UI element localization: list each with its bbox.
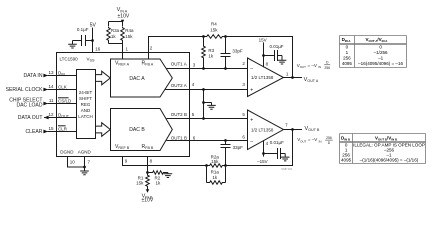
svg-text:–: – [250, 139, 253, 145]
DAC B block [111, 109, 173, 151]
svg-text:10: 10 [70, 160, 76, 165]
svg-text:R4: R4 [211, 22, 217, 27]
svg-text:15k: 15k [211, 159, 219, 164]
svg-text:= –V: = –V [308, 137, 317, 142]
wire output A node [284, 77, 303, 79]
capacitor 0.1uF bypass [73, 35, 93, 46]
svg-text:1k: 1k [156, 181, 162, 186]
svg-text:DAC LOAD: DAC LOAD [16, 103, 42, 109]
wire SERIAL CLOCK pin 14 [43, 88, 48, 92]
svg-text:15k: 15k [125, 34, 133, 39]
wire DATA OUT pin 12 [44, 116, 49, 120]
svg-text:IN: IN [318, 65, 321, 69]
svg-text:–1: –1 [378, 56, 384, 61]
wire output B node [284, 129, 303, 131]
svg-text:15k: 15k [210, 27, 218, 32]
wire CLEAR pin 15 [43, 130, 48, 134]
ground AGND [84, 167, 86, 171]
table A DIN A transfer [340, 36, 407, 68]
ground R2 [164, 174, 173, 178]
resistor R1 15k [147, 173, 149, 175]
svg-text:SERIAL CLOCK: SERIAL CLOCK [6, 87, 43, 93]
svg-text:0.01µF: 0.01µF [270, 140, 284, 145]
svg-text:1/2 LT1358: 1/2 LT1358 [251, 75, 274, 80]
chip LTC1590 outline [57, 53, 190, 157]
svg-text:DATA OUT: DATA OUT [18, 115, 43, 121]
wire feedback B loop [226, 130, 293, 166]
svg-text:–1/256: –1/256 [374, 50, 388, 55]
svg-text:33pF: 33pF [233, 145, 244, 150]
svg-text:–15V: –15V [257, 159, 268, 164]
svg-text:33pF: 33pF [232, 48, 243, 53]
svg-text:1k: 1k [212, 175, 218, 180]
wire pin 9 VREF B to feedback line [123, 157, 207, 166]
wire divider to pin 1 VREF A [109, 44, 123, 60]
resistor R1a 1k parallel [207, 166, 226, 183]
table B DIN B transfer [340, 134, 426, 164]
wire pin 8 RFB B to input node [147, 157, 149, 173]
svg-text:15k: 15k [136, 181, 144, 186]
svg-text:4095: 4095 [341, 158, 352, 163]
svg-text:= –V: = –V [308, 63, 317, 68]
svg-text:R3: R3 [208, 48, 214, 53]
svg-text:0.01µF: 0.01µF [269, 44, 283, 49]
svg-text:DATA IN: DATA IN [23, 73, 42, 79]
wire DATA IN pin 13 [43, 74, 48, 78]
svg-text:+: + [250, 87, 253, 93]
svg-text:DGND: DGND [60, 150, 74, 155]
svg-text:OUT1 B: OUT1 B [171, 135, 187, 140]
resistor R3 1k [203, 37, 205, 46]
svg-text:±10V: ±10V [141, 198, 153, 204]
svg-text:LTC1590: LTC1590 [60, 56, 79, 61]
capacitor 33pF B [221, 141, 231, 166]
wire feedback A to output node [226, 37, 293, 78]
svg-text:REG: REG [81, 102, 91, 107]
svg-text:0.1µF: 0.1µF [77, 27, 89, 32]
svg-text:AND: AND [81, 108, 91, 113]
svg-text:13: 13 [48, 70, 54, 75]
svg-text:12: 12 [48, 112, 54, 117]
resistor R4 15k [206, 35, 224, 39]
wire OUT2 A pin 4 to noninverting input [165, 89, 248, 91]
svg-text:OUT2 B: OUT2 B [171, 112, 187, 117]
svg-text:15V: 15V [259, 38, 267, 43]
svg-text:1k: 1k [111, 34, 117, 39]
block arrow to DAC A [96, 71, 111, 85]
resistor R4a 15k [122, 22, 124, 27]
svg-text:11: 11 [49, 98, 54, 103]
svg-text:R3a: R3a [111, 28, 120, 33]
svg-text:DAC B: DAC B [129, 127, 145, 133]
svg-text:–16(4095/4096) = –16: –16(4095/4096) = –16 [358, 61, 403, 66]
svg-text:CS/LD: CS/LD [58, 98, 72, 103]
svg-text:CLK: CLK [58, 84, 67, 89]
svg-text:24-BIT: 24-BIT [79, 90, 93, 95]
svg-text:–: – [250, 66, 253, 72]
wire pin 2 RFB A to feedback [149, 37, 204, 60]
24-bit shift register and latch [77, 70, 96, 139]
svg-text:OUT1 A: OUT1 A [171, 62, 187, 67]
svg-text:DN87 F02: DN87 F02 [282, 169, 293, 171]
wire OUT1 A pin 3 to inverting input [166, 68, 248, 70]
resistor R2a 15k feedback [209, 164, 224, 168]
svg-text:SHIFT: SHIFT [79, 96, 92, 101]
op-amp 1/2 LT1358 B [248, 110, 284, 150]
ground 0.01uF B [281, 157, 290, 161]
wire 5V to pin 16 VSS [92, 28, 94, 53]
wire OUT1 B pin 6 to inverting input [167, 140, 248, 142]
svg-text:CLR: CLR [58, 126, 68, 131]
svg-text:±10V: ±10V [117, 14, 129, 20]
wire OUT2 B pin 5 to noninverting input [167, 118, 248, 120]
capacitor 33pF A [221, 37, 231, 69]
resistor R2 1k [148, 172, 152, 174]
wire ground tie vertical [203, 90, 205, 119]
svg-text:15: 15 [48, 126, 54, 131]
svg-text:LATCH: LATCH [78, 114, 92, 119]
svg-text:DAC A: DAC A [129, 76, 145, 82]
svg-text:14: 14 [48, 84, 54, 89]
node VIN B [146, 189, 149, 193]
svg-text:256: 256 [324, 66, 330, 70]
svg-text:–(1/16)(4096/4095) = –(1/16): –(1/16)(4096/4095) = –(1/16) [360, 158, 419, 163]
DAC A block [111, 59, 173, 97]
ground 0.01uF A [278, 60, 287, 64]
svg-text:OUT2 A: OUT2 A [171, 83, 187, 88]
svg-text:R4a: R4a [125, 28, 134, 33]
svg-text:IN: IN [319, 139, 322, 143]
ground bypass cap [68, 44, 77, 48]
svg-text:5V: 5V [90, 23, 97, 29]
svg-text:1k: 1k [208, 53, 214, 58]
svg-text:AGND: AGND [78, 150, 92, 155]
svg-text:CLEAR: CLEAR [26, 129, 43, 135]
svg-text:+: + [250, 117, 253, 123]
svg-text:1/2 LT1358: 1/2 LT1358 [251, 128, 274, 133]
svg-text:16: 16 [95, 46, 101, 51]
ground OUT2 nets [204, 103, 212, 106]
resistor R3a 1k [108, 22, 110, 27]
svg-text:256: 256 [326, 136, 332, 140]
svg-text:4095: 4095 [342, 61, 353, 66]
wire VIN A tie [109, 21, 123, 23]
capacitor 0.01uF B [264, 148, 286, 159]
wire CHIP SELECT / DAC LOAD pin 11 [43, 102, 48, 106]
capacitor 0.01uF A [264, 50, 283, 61]
op-amp 1/2 LT1358 A [248, 58, 284, 97]
svg-text:256: 256 [343, 56, 351, 61]
block arrow to DAC B [96, 123, 111, 137]
junction 5V/bypass [91, 39, 94, 42]
wire pin 4 to -15V [263, 141, 265, 157]
